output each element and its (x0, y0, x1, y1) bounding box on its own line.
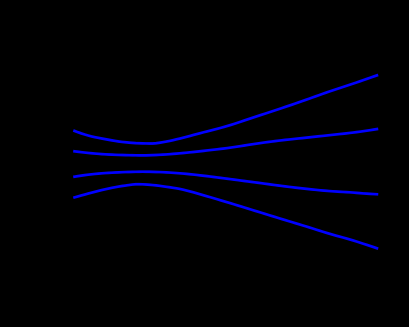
curve 1: upper outer beam envelope (75, 75, 377, 143)
curve 2: upper inner beam envelope (75, 129, 377, 155)
curve 4: lower outer beam envelope (75, 184, 377, 248)
curve 3: lower inner beam envelope (75, 172, 377, 195)
